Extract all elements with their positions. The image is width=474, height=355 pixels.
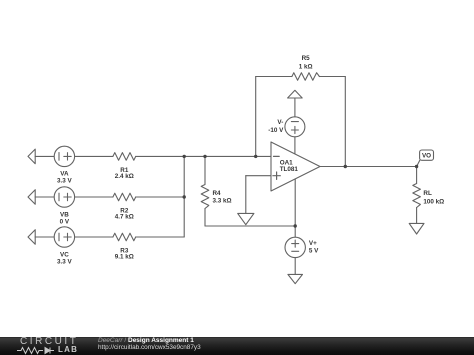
svg-text:R4: R4 [213, 190, 222, 197]
svg-text:1 kΩ: 1 kΩ [299, 63, 313, 70]
svg-text:TL081: TL081 [280, 166, 299, 173]
svg-text:RL: RL [423, 190, 432, 197]
svg-text:VO: VO [422, 152, 431, 159]
svg-text:3.3 V: 3.3 V [57, 258, 73, 265]
svg-text:VC: VC [60, 251, 69, 258]
svg-text:100 kΩ: 100 kΩ [423, 199, 444, 206]
svg-text:3.3 V: 3.3 V [57, 178, 73, 185]
svg-text:3.3 kΩ: 3.3 kΩ [213, 198, 232, 205]
svg-text:5 V: 5 V [309, 247, 319, 254]
svg-text:2.4 kΩ: 2.4 kΩ [115, 173, 134, 180]
svg-text:VA: VA [60, 171, 69, 178]
svg-text:VB: VB [60, 211, 69, 218]
svg-text:-10 V: -10 V [268, 127, 284, 134]
svg-text:0 V: 0 V [60, 218, 70, 225]
svg-text:V+: V+ [309, 240, 317, 247]
svg-text:9.1 kΩ: 9.1 kΩ [115, 254, 134, 261]
svg-text:R5: R5 [302, 55, 311, 62]
svg-text:4.7 kΩ: 4.7 kΩ [115, 214, 134, 221]
svg-text:V-: V- [277, 119, 283, 126]
